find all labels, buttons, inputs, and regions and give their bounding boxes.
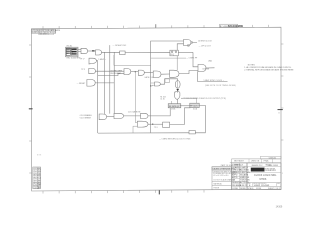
zone tick marks top edge <box>43 25 268 29</box>
svg-text:OSC 10.000 MHZ: OSC 10.000 MHZ <box>66 57 81 59</box>
wire TP line right <box>197 72 227 82</box>
svg-text:C1 30: C1 30 <box>160 99 165 101</box>
wires into U8 <box>151 84 155 87</box>
crystal Y1 <box>175 79 180 93</box>
wire U3A out with junction dot <box>131 71 139 73</box>
junction tick <box>92 50 95 52</box>
SCHEMATIC <box>66 40 237 141</box>
svg-text:FF 5473 Q1: FF 5473 Q1 <box>169 106 179 108</box>
svg-text:8 8 8: 8 8 8 <box>37 155 41 157</box>
buffer B1 <box>120 51 126 55</box>
svg-text:.XX ±.02 .XXX ±.010: .XX ±.02 .XXX ±.010 <box>213 175 229 177</box>
wire U6 out <box>206 67 215 69</box>
gate U4A top output <box>184 40 192 46</box>
gate U2C row4 <box>77 80 115 87</box>
centering mark top <box>155 24 157 28</box>
small box above application row <box>261 156 282 159</box>
wire U13A out to FF1 riser <box>148 108 170 116</box>
wire U9 stubs top <box>174 91 176 94</box>
gate U1A <box>81 48 88 53</box>
gate U1B <box>96 50 102 55</box>
gate U13B <box>137 121 148 127</box>
wire B3 out riser <box>170 108 191 125</box>
svg-text:— (TP 5) OUT: — (TP 5) OUT <box>199 46 212 48</box>
input labels G8 <box>79 114 93 117</box>
label under bottom wire <box>159 138 191 140</box>
flip-flop U11 <box>190 103 199 107</box>
wire U13B out with dot <box>148 123 163 125</box>
wire under U5 <box>151 57 186 59</box>
svg-text:— RESET: — RESET <box>77 83 87 85</box>
svg-text:TP 2: TP 2 <box>81 69 85 71</box>
buffer B4 <box>189 131 195 134</box>
label above wire <box>128 110 141 113</box>
svg-text:U6 PIN8: U6 PIN8 <box>203 68 209 70</box>
company logo <box>251 168 265 172</box>
wire U10 to U11 <box>180 105 191 107</box>
svg-text:10 MHZ CLOCK: 10 MHZ CLOCK <box>198 41 213 43</box>
svg-text:NOTES:: NOTES: <box>248 65 256 67</box>
faint zone note <box>37 155 41 157</box>
svg-text:› CLK INHIBIT: › CLK INHIBIT <box>79 118 92 120</box>
centering mark left <box>29 108 33 110</box>
zone label outside right border <box>282 173 284 175</box>
label under dot <box>154 127 158 129</box>
wire U11 top stub <box>181 98 197 103</box>
notes box left <box>212 167 232 190</box>
svg-text:FINISH: FINISH <box>214 187 220 189</box>
gate U2A row2 <box>80 58 107 63</box>
wire B1 to U5 <box>125 52 170 54</box>
svg-text:14309: 14309 <box>276 205 283 208</box>
wire U8 out up and right <box>160 79 177 84</box>
wire U5 clock stub up <box>177 44 183 50</box>
wire stub to U6 lower input <box>193 52 198 66</box>
svg-text:TP 1 •: TP 1 • <box>80 58 85 60</box>
svg-text:CLOCK LOGIC MDL: CLOCK LOGIC MDL <box>254 175 277 177</box>
svg-text:— 10 MHZ OSC: — 10 MHZ OSC <box>113 45 127 47</box>
svg-text:R1 10K: R1 10K <box>160 96 167 98</box>
zone tick marks right edge <box>281 44 283 140</box>
svg-text:CLK 10 MHZ: CLK 10 MHZ <box>110 73 121 75</box>
svg-text:USED ON: USED ON <box>251 161 260 163</box>
svg-text:— SYNCHRONIZED 5 MHZ CLOCK OUT: — SYNCHRONIZED 5 MHZ CLOCK OUTPUT (TP 8) <box>181 98 226 100</box>
title text <box>254 175 277 177</box>
notes text right middle <box>244 65 294 72</box>
wire U3B out <box>144 72 153 74</box>
revision block <box>32 29 61 36</box>
svg-text:U2: U2 <box>88 64 90 66</box>
bottom feedback wire <box>98 132 189 134</box>
gate U12A <box>99 114 107 120</box>
wire U12B out long <box>124 115 141 117</box>
gate U8 small <box>155 82 161 86</box>
gate U6 right <box>198 65 206 72</box>
application row lines <box>230 162 281 164</box>
dark label on wires into U3A <box>110 70 123 73</box>
vertical bus wires <box>97 61 99 134</box>
label under wire <box>144 76 154 79</box>
oscillator module A1 <box>66 45 82 60</box>
zone tick marks left edge <box>29 45 32 173</box>
flip-flop U10 <box>168 104 181 108</box>
svg-text:— 5 MHZ RETURN CLOCK TO TMG: — 5 MHZ RETURN CLOCK TO TMG <box>159 138 191 140</box>
centering mark right <box>278 109 283 111</box>
wire into U13B from vertical <box>135 72 137 123</box>
svg-text:MTDS: MTDS <box>260 179 267 181</box>
resistor label left of U9 <box>160 96 167 98</box>
wire lower of U2B <box>98 73 124 75</box>
wire U9 to FF U10 <box>176 100 178 104</box>
gate U2B row3 <box>81 64 124 74</box>
svg-text:5 MHZ SYNC CLOCK →: 5 MHZ SYNC CLOCK → <box>204 80 225 82</box>
gate U3C <box>153 71 161 78</box>
svg-text:14309: 14309 <box>240 188 246 190</box>
svg-text:H.MILLER: H.MILLER <box>240 177 250 179</box>
feedback loop right <box>195 105 205 132</box>
gate U12B <box>114 113 124 118</box>
sheet number outside border <box>276 205 283 208</box>
border frame <box>31 27 281 191</box>
wire U3C out <box>161 73 170 75</box>
gate U3A <box>124 69 131 75</box>
top-right drawing number box <box>220 24 244 28</box>
gate U3B <box>138 70 144 75</box>
wire U5 Q out <box>178 51 193 53</box>
svg-text:R.JONES: R.JONES <box>240 170 249 172</box>
wire U4A out <box>193 41 197 43</box>
bottom-left microcircuit table <box>33 167 42 189</box>
label right of U9 out <box>181 98 226 100</box>
wire second stub <box>171 101 173 104</box>
wire into U13B lower <box>133 126 137 133</box>
main right cell <box>247 163 281 190</box>
svg-text:9-30-72: 9-30-72 <box>240 185 248 187</box>
svg-text:SHEET 2 OF 2: SHEET 2 OF 2 <box>268 188 280 190</box>
svg-text:— 5 MHZ FF: — 5 MHZ FF <box>186 57 198 59</box>
gate U13A <box>141 113 148 118</box>
wire main clock line <box>102 51 120 53</box>
junction dot on vertical <box>150 85 151 86</box>
svg-text:T.WILSON: T.WILSON <box>240 180 250 182</box>
buffer B3 <box>163 122 170 127</box>
svg-text:5 MHZ →: 5 MHZ → <box>98 59 106 61</box>
label 10MHZ clock out <box>198 41 213 43</box>
wire U7 out to U6 <box>179 71 198 74</box>
wire U12A out <box>107 116 114 118</box>
svg-text:TP 6: TP 6 <box>154 127 158 129</box>
label net 10MHZ <box>113 45 127 47</box>
svg-text:CODE: CODE <box>232 188 238 190</box>
svg-text:FF 5473: FF 5473 <box>190 106 197 108</box>
centering mark bottom <box>158 190 160 194</box>
middle approvals column <box>232 163 248 190</box>
zone tick marks bottom edge <box>43 190 204 194</box>
wire elbow from B1 bottom <box>114 55 151 65</box>
svg-text:DESIGN: DESIGN <box>232 182 240 184</box>
gate U7 OR <box>170 70 180 77</box>
size/fscm/dwg row <box>251 183 253 187</box>
label right of U5 <box>186 57 198 59</box>
title block <box>212 156 281 190</box>
wire long feedback top <box>151 41 184 133</box>
svg-text:NONE: NONE <box>256 188 262 190</box>
wire U1A out <box>88 50 96 52</box>
svg-text:14309-62: 14309-62 <box>269 158 277 160</box>
flip-flop U5 <box>170 50 178 56</box>
wire osc to U1A <box>78 50 81 52</box>
gate U9 down-pointing <box>174 92 180 100</box>
wire U5 bottom to U7 top <box>176 56 178 70</box>
svg-text:N00039-72-C: N00039-72-C <box>252 165 263 167</box>
svg-text:ISSUED: ISSUED <box>232 172 240 174</box>
small box between <box>165 79 170 83</box>
